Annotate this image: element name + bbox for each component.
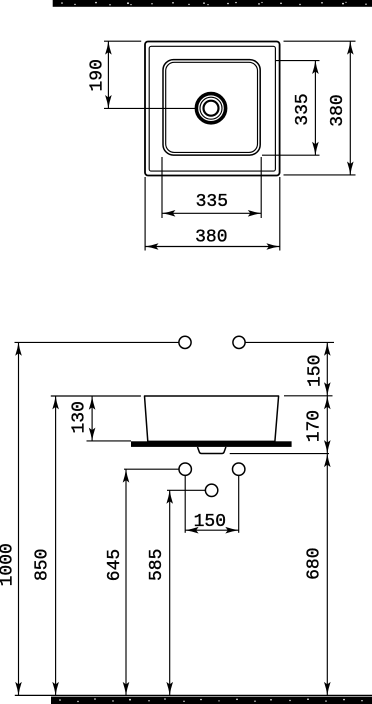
drain inner circle xyxy=(204,101,219,116)
rim inner edge xyxy=(149,46,275,171)
dim 335 (right of top view, basin height) xyxy=(262,61,320,156)
dim 170 (rim to drain bottom) xyxy=(324,396,331,409)
basin inner edge xyxy=(166,62,258,152)
dim 585 (floor to waste hole) xyxy=(169,490,171,695)
drain middle circle xyxy=(200,97,222,119)
sink rim level extension lines xyxy=(51,395,141,397)
svg-text:680: 680 xyxy=(305,547,325,579)
dim 335 (bottom of top view, basin width) xyxy=(162,157,261,218)
svg-text:170: 170 xyxy=(304,410,324,442)
svg-text:150: 150 xyxy=(305,355,325,387)
dim 1000 (floor to fixing holes) xyxy=(18,342,20,695)
dim 130 (basin height above counter) xyxy=(91,396,93,441)
svg-text:130: 130 xyxy=(70,401,90,433)
leader at 645 level xyxy=(124,468,179,470)
dim 680 (drain bottom to floor) xyxy=(324,454,331,467)
countertop slab xyxy=(131,441,292,447)
counter top level extension (left of slab) xyxy=(87,440,132,442)
dim 850 (floor to rim) xyxy=(55,396,57,695)
leader at 585 level xyxy=(167,489,205,491)
drain outer ring xyxy=(196,94,225,123)
svg-text:380: 380 xyxy=(328,94,348,126)
drain bottom level extension line xyxy=(230,453,329,455)
dim 645 (floor to supply holes) xyxy=(125,469,127,695)
washbasin body (front elevation) xyxy=(145,396,279,441)
svg-text:335: 335 xyxy=(293,93,313,125)
svg-text:1000: 1000 xyxy=(0,543,18,586)
dim 150 (between supply holes) xyxy=(185,476,239,533)
svg-text:585: 585 xyxy=(147,549,167,581)
svg-text:645: 645 xyxy=(105,549,125,581)
wall section bar (top, plan view) xyxy=(53,0,372,7)
svg-text:380: 380 xyxy=(195,227,227,247)
drain fitting below counter xyxy=(198,447,226,454)
dim 380 (far right of top view) xyxy=(284,41,356,175)
svg-text:190: 190 xyxy=(87,59,107,91)
fixing hole circle left xyxy=(179,336,191,348)
wall fixing level line (left segment) xyxy=(15,341,179,343)
supply hole circle right xyxy=(233,463,245,475)
floor baseline xyxy=(15,694,372,696)
basin outer edge 335 xyxy=(163,60,260,156)
dim 150 (fixing holes to rim) xyxy=(324,342,331,355)
dim 190 (left of top view) xyxy=(104,41,196,108)
svg-text:150: 150 xyxy=(194,512,226,532)
dim 380 (bottom of top view) xyxy=(145,177,280,251)
svg-text:335: 335 xyxy=(196,192,228,212)
fixing hole circle right xyxy=(233,336,245,348)
outer square 380x380 xyxy=(145,42,280,176)
wall fixing level line (right segment) xyxy=(245,341,334,343)
floor section bar xyxy=(51,697,372,704)
supply hole circle left xyxy=(179,463,191,475)
waste hole circle xyxy=(205,484,217,496)
right dimension chain line xyxy=(326,342,328,695)
svg-text:850: 850 xyxy=(32,549,52,581)
